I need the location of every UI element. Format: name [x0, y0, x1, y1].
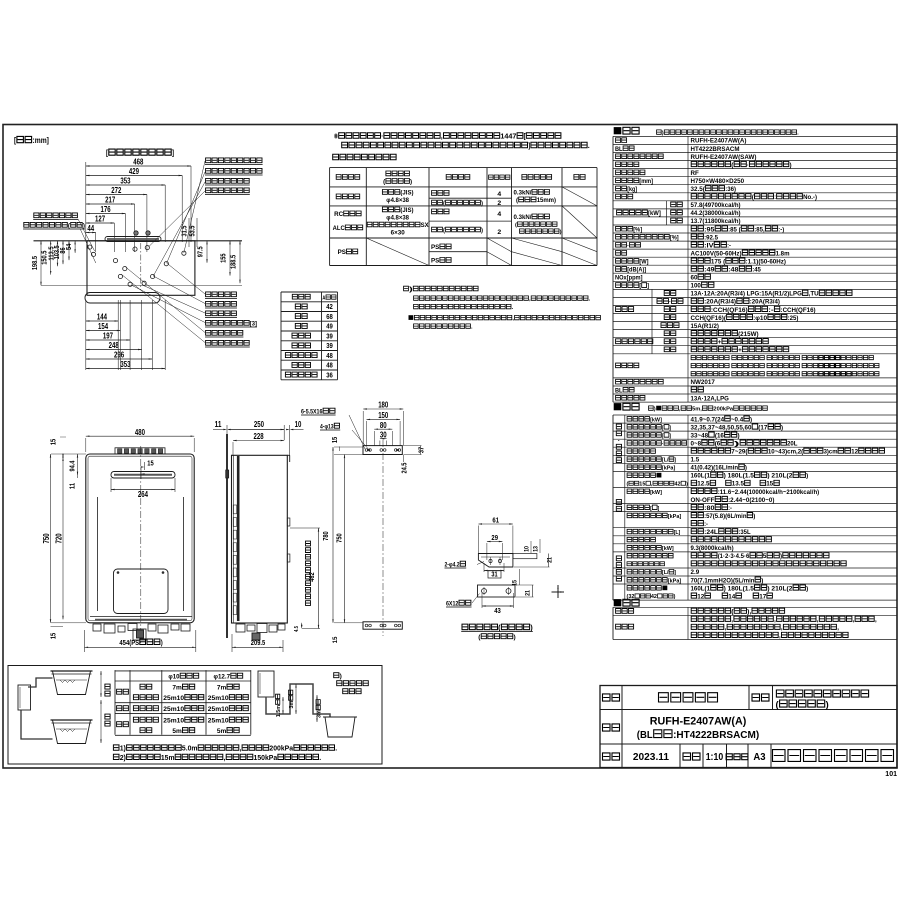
- svg-text:197: 197: [103, 332, 113, 341]
- freeze prevention group label: [616, 339, 653, 344]
- svg-text:13.5: 13.5: [732, 481, 744, 488]
- svg-text:5m,: 5m,: [692, 407, 702, 413]
- front view lower panel: [114, 569, 169, 614]
- svg-text:15: 15: [639, 482, 645, 488]
- svg-text::20A(R3/4): :20A(R3/4): [704, 299, 736, 306]
- svg-text:·: ·: [618, 438, 620, 445]
- svg-text::: :: [774, 194, 776, 201]
- bracket detail upper right flange: [513, 554, 537, 559]
- svg-text:60: 60: [691, 275, 698, 282]
- parts table grid: [613, 606, 897, 608]
- torii tub: [325, 717, 355, 737]
- svg-text:,: ,: [240, 746, 242, 753]
- svg-text:[kW]: [kW]: [662, 546, 674, 552]
- bracket detail dim 43: [482, 605, 514, 607]
- upper tub: [53, 671, 91, 695]
- svg-text:160L(1: 160L(1: [691, 473, 711, 480]
- svg-text:10~43)cm,2(: 10~43)cm,2(: [768, 449, 804, 456]
- svg-text:.: .: [335, 746, 337, 753]
- svg-text:15: 15: [147, 459, 153, 468]
- fuukan ports dark: [134, 231, 138, 235]
- svg-text:80: 80: [380, 421, 387, 430]
- top view horizontal dimension 176: [86, 213, 126, 215]
- svg-text:): ): [745, 465, 747, 472]
- side view body: [232, 455, 288, 623]
- svg-text:188.5: 188.5: [229, 255, 238, 269]
- bracket detail upper shape: [478, 554, 513, 568]
- svg-text:176: 176: [101, 205, 112, 214]
- svg-text:5m: 5m: [172, 728, 181, 735]
- top view leader lines right top: [184, 161, 205, 253]
- title block row1: [603, 694, 620, 701]
- svg-text:39: 39: [326, 331, 333, 340]
- parts table title: [623, 599, 639, 606]
- svg-text:39: 39: [326, 341, 333, 350]
- svg-text:): ): [780, 553, 782, 560]
- svg-text:RC: RC: [334, 211, 344, 218]
- svg-text:2: 2: [497, 200, 501, 207]
- svg-text:3m: 3m: [317, 710, 323, 718]
- side view dim 209.5: [231, 634, 233, 652]
- svg-text:+: +: [718, 339, 722, 346]
- svg-text:φ10: φ10: [168, 674, 179, 681]
- svg-text:41(0.42)(16L/min: 41(0.42)(16L/min: [691, 465, 739, 472]
- piping diagram box: [8, 666, 382, 765]
- svg-text:94.4: 94.4: [68, 461, 77, 472]
- svg-text:): ): [686, 482, 688, 488]
- svg-text:[L/: [L/: [662, 458, 669, 464]
- svg-text:HT4222BRSACM: HT4222BRSACM: [691, 146, 740, 153]
- svg-text:[: [: [14, 136, 16, 145]
- svg-text:NOx[ppm]: NOx[ppm]: [615, 275, 643, 282]
- svg-text:1447: 1447: [500, 132, 516, 141]
- front view bottom strip: [90, 616, 192, 618]
- front view louver slot: [111, 472, 175, 479]
- svg-text:68: 68: [326, 312, 333, 321]
- top view horizontal dimension 127: [86, 222, 115, 224]
- bracket detail lower shape: [478, 585, 516, 597]
- svg-text:·: ·: [669, 299, 671, 306]
- svg-text:1): 1): [120, 746, 126, 753]
- side view right tabs: [287, 518, 290, 526]
- svg-text:15: 15: [332, 636, 339, 643]
- svg-text:[dB(A)]: [dB(A)]: [627, 267, 646, 274]
- fixing table header: [336, 175, 360, 180]
- svg-text:(BL: (BL: [637, 730, 653, 741]
- svg-text:9.3(8000kcal/h): 9.3(8000kcal/h): [691, 545, 734, 552]
- svg-text:),: ),: [747, 609, 751, 616]
- svg-text::85,: :85,: [754, 226, 764, 233]
- svg-text:[3]: [3]: [250, 321, 257, 328]
- svg-text:4.5: 4.5: [294, 626, 300, 632]
- performance table grid: [613, 414, 897, 416]
- svg-text:150kPa: 150kPa: [254, 755, 278, 762]
- svg-text:13: 13: [533, 546, 540, 552]
- svg-text:,: ,: [875, 617, 877, 624]
- svg-text:25m10: 25m10: [163, 706, 184, 713]
- svg-text:(1·2·3·4.5·6: (1·2·3·4.5·6: [718, 553, 750, 560]
- fixing row wood wall: [336, 194, 360, 199]
- side view wall line: [226, 434, 228, 638]
- fixing method table: [330, 167, 597, 169]
- rear view left dims 780 750: [332, 447, 334, 623]
- svg-text::36): :36): [725, 186, 736, 193]
- svg-text:42: 42: [326, 302, 333, 311]
- connection group label: [616, 307, 634, 312]
- bracket detail dims 10 13 21: [524, 546, 531, 552]
- svg-text:32.5(: 32.5(: [691, 186, 706, 193]
- torii heater: [258, 671, 274, 697]
- svg-text:248: 248: [109, 341, 120, 350]
- bracket detail upper dim 29: [487, 541, 503, 543]
- svg-text:): ): [781, 424, 783, 431]
- top view front slot: [105, 237, 161, 242]
- svg-text:49: 49: [326, 322, 333, 331]
- left depth dims of top view: [40, 241, 42, 286]
- svg-text:): ): [481, 228, 483, 234]
- svg-text:15: 15: [766, 481, 773, 488]
- svg-text:) 180L(1.5: ) 180L(1.5: [724, 473, 755, 480]
- svg-text:36: 36: [326, 370, 333, 379]
- safety devices cell: [616, 363, 639, 368]
- svg-text:): ): [340, 673, 342, 680]
- top view horizontal dimension 468: [86, 165, 191, 167]
- svg-text:[kg]: [kg]: [627, 186, 637, 193]
- svg-text:2023.11: 2023.11: [633, 752, 670, 763]
- svg-text:): ): [560, 230, 562, 236]
- svg-text:]: ]: [669, 433, 671, 439]
- svg-text:]: ]: [647, 283, 649, 290]
- svg-text:7~29(: 7~29(: [731, 449, 748, 456]
- svg-text:]: ]: [658, 506, 660, 512]
- svg-text:21: 21: [525, 590, 532, 596]
- svg-text:,: ,: [224, 755, 226, 762]
- svg-text:2-φ4.2: 2-φ4.2: [445, 562, 460, 569]
- svg-text:3m: 3m: [289, 701, 295, 709]
- svg-text:200kPa: 200kPa: [713, 407, 733, 413]
- front view dim 480: [86, 435, 194, 437]
- svg-text:): ): [83, 223, 85, 230]
- fixing table diagonals: [562, 187, 597, 206]
- side view gasket line: [237, 456, 240, 621]
- svg-text::CCH(QF16): :CCH(QF16): [711, 307, 748, 314]
- svg-text:468: 468: [133, 158, 144, 167]
- rear view top bracket dims: [330, 437, 339, 443]
- svg-text:): ): [409, 287, 413, 293]
- svg-text:21: 21: [547, 557, 554, 563]
- pipes to tubs: [28, 678, 53, 687]
- top view bottom dims: [86, 320, 118, 322]
- svg-text:): ): [806, 585, 808, 592]
- connection port circles: [88, 245, 92, 249]
- svg-text:2: 2: [497, 229, 501, 236]
- svg-text::2.44~0(2100~0): :2.44~0(2100~0): [728, 497, 774, 504]
- svg-text:780: 780: [321, 531, 330, 540]
- svg-text::25): :25): [788, 315, 799, 322]
- svg-text:,TU: ,TU: [809, 291, 819, 298]
- svg-text:(215W): (215W): [738, 331, 759, 338]
- svg-text:42: 42: [675, 482, 681, 488]
- left labels heating connections: [34, 213, 78, 218]
- long extension line 198.5: [41, 284, 242, 286]
- svg-text:,: ,: [731, 617, 733, 624]
- svg-text:[kPa]: [kPa]: [668, 578, 681, 584]
- svg-text:12: 12: [697, 593, 704, 600]
- svg-text::1.1)(50-60Hz): :1.1)(50-60Hz): [746, 259, 786, 266]
- svg-text:1.5: 1.5: [691, 457, 700, 464]
- svg-text:[%]: [%]: [670, 234, 679, 241]
- updown dim labels: [100, 671, 102, 697]
- svg-text:70(7.1mmH2O)(5L/min: 70(7.1mmH2O)(5L/min: [691, 577, 755, 584]
- svg-text:154: 154: [98, 322, 109, 331]
- svg-text:]: ]: [528, 141, 530, 150]
- svg-text:54: 54: [64, 244, 73, 250]
- top view horizontal dimension 217: [86, 203, 135, 205]
- svg-text:]: ]: [669, 425, 671, 431]
- piping length table: [115, 670, 251, 672]
- A-dimension table: [281, 291, 338, 293]
- svg-text:1.8m: 1.8m: [776, 250, 790, 257]
- svg-text:296: 296: [114, 351, 125, 360]
- svg-text:0.3kN/: 0.3kN/: [514, 190, 532, 197]
- svg-text:PS: PS: [431, 258, 439, 265]
- svg-text:φ4.8×38: φ4.8×38: [386, 215, 409, 222]
- svg-text:(JIS): (JIS): [400, 207, 413, 214]
- front view top hooks: [115, 448, 165, 454]
- top view horizontal dimension 44: [86, 232, 96, 234]
- rear view center line: [382, 440, 384, 636]
- svg-text:200kPa: 200kPa: [269, 746, 293, 753]
- svg-text:[kPa]: [kPa]: [668, 514, 681, 520]
- svg-text:φ4.8×38: φ4.8×38: [386, 197, 409, 204]
- svg-text:4-φ13: 4-φ13: [320, 424, 334, 431]
- spec table title: [623, 127, 639, 134]
- svg-text:480: 480: [135, 428, 146, 437]
- title block row2 model: [603, 724, 620, 731]
- svg-text:): ): [654, 407, 656, 413]
- svg-text:272: 272: [111, 186, 122, 195]
- svg-text:(16: (16: [715, 432, 724, 439]
- svg-text:): ): [734, 441, 740, 448]
- svg-text:97.5: 97.5: [196, 246, 205, 257]
- svg-text:101: 101: [885, 771, 897, 778]
- svg-text:~0.4: ~0.4: [731, 416, 743, 423]
- front view body outline: [86, 454, 194, 623]
- svg-text:[L/: [L/: [662, 570, 669, 576]
- svg-text:NW2017: NW2017: [691, 379, 715, 386]
- svg-text:720: 720: [55, 533, 64, 544]
- bottom right labels: [206, 292, 237, 297]
- svg-text::IV: :IV: [704, 242, 714, 249]
- svg-text:7m: 7m: [172, 685, 181, 692]
- svg-text:13A·12A:20A(R3/4) LPG:15A(R1/2: 13A·12A:20A(R3/4) LPG:15A(R1/2)LPG: [691, 291, 802, 298]
- front view left dims: [49, 439, 58, 445]
- svg-text:15m: 15m: [161, 755, 175, 762]
- svg-text:RF: RF: [691, 170, 699, 177]
- side view dim 228: [233, 440, 284, 442]
- top view dim extension lines: [85, 162, 87, 240]
- svg-text:[: [: [639, 283, 641, 290]
- svg-text:12.5: 12.5: [697, 481, 709, 488]
- svg-text::mm]: :mm]: [33, 136, 50, 145]
- svg-text:6-5.5X16: 6-5.5X16: [301, 409, 323, 416]
- svg-text:No.-): No.-): [803, 194, 817, 201]
- svg-text:15: 15: [49, 439, 58, 445]
- spec table grid: [613, 135, 897, 137]
- svg-text:0.3kN/: 0.3kN/: [514, 214, 532, 221]
- svg-text:155: 155: [218, 254, 227, 263]
- svg-text:10: 10: [295, 420, 302, 429]
- svg-text::-: :-: [727, 242, 731, 249]
- svg-text:100: 100: [691, 283, 702, 290]
- svg-text:25m10: 25m10: [208, 706, 229, 713]
- svg-text:[%]: [%]: [633, 226, 642, 233]
- front view center line: [140, 446, 142, 643]
- svg-text:(: (: [443, 228, 445, 234]
- svg-text:144: 144: [97, 313, 108, 322]
- svg-text::35L: :35L: [738, 529, 750, 536]
- top view horizontal dimension 272: [86, 194, 147, 196]
- svg-text:6×30: 6×30: [391, 230, 406, 237]
- svg-text:RUFH-E2407AW(SAW): RUFH-E2407AW(SAW): [691, 154, 757, 161]
- side view dim 462 wall bracket pitch: [318, 528, 320, 629]
- svg-text:750: 750: [335, 533, 344, 542]
- svg-text:12: 12: [851, 449, 858, 456]
- svg-text:): ): [514, 634, 516, 641]
- side view louvers: [233, 505, 236, 514]
- svg-text:15: 15: [49, 633, 58, 639]
- svg-text:10: 10: [524, 546, 531, 552]
- rear view bottom bracket: [363, 622, 402, 629]
- svg-text:BL: BL: [615, 387, 623, 394]
- svg-text::92.5: :92.5: [704, 234, 718, 241]
- svg-text:11: 11: [68, 483, 77, 489]
- svg-text:209.5: 209.5: [251, 638, 265, 647]
- front view bottom connection stubs: [93, 624, 101, 631]
- spec table labels and values: [616, 138, 627, 143]
- orientation mark: [552, 585, 565, 598]
- svg-text:20L: 20L: [787, 441, 797, 448]
- svg-text:454(PS: 454(PS: [119, 638, 139, 647]
- svg-text:2): 2): [120, 755, 126, 762]
- svg-text:): ): [753, 513, 755, 520]
- svg-text:ON-OFF: ON-OFF: [691, 497, 715, 504]
- svg-text:SX: SX: [421, 223, 429, 229]
- svg-text:42: 42: [651, 594, 657, 600]
- svg-text:13A·12A,LPG: 13A·12A,LPG: [691, 395, 729, 402]
- svg-text:.: .: [319, 755, 321, 762]
- svg-text::80: :80: [704, 505, 715, 512]
- svg-text:(JIS): (JIS): [400, 190, 413, 197]
- svg-text:1:10: 1:10: [706, 752, 724, 763]
- svg-text:(6: (6: [715, 441, 721, 448]
- svg-text:175 (: 175 (: [711, 259, 726, 266]
- svg-text:·: ·: [381, 132, 383, 141]
- svg-text:,: ,: [779, 633, 781, 640]
- side view small dim 4.5: [301, 623, 303, 629]
- svg-text::85 (: :85 (: [728, 226, 741, 233]
- svg-text:3)cm: 3)cm: [824, 449, 838, 456]
- svg-text:RUFH-E2407AW(A): RUFH-E2407AW(A): [650, 716, 747, 728]
- svg-text::-: :-: [768, 307, 774, 314]
- svg-text:,: ,: [853, 617, 855, 624]
- right depth dims of top view: [180, 226, 189, 237]
- svg-text:): ): [410, 179, 412, 186]
- fixing method table title: [333, 154, 396, 160]
- svg-text:): ): [750, 416, 752, 423]
- svg-text::49: :49: [704, 267, 715, 274]
- svg-text:29: 29: [491, 533, 498, 542]
- torii dims: [282, 697, 284, 714]
- svg-text:217: 217: [105, 196, 115, 205]
- svg-text:353: 353: [120, 360, 131, 369]
- title block row3: [603, 753, 620, 760]
- svg-text:25m10: 25m10: [208, 695, 229, 702]
- svg-text:): ): [826, 699, 829, 710]
- top view bottom slot: [85, 293, 160, 304]
- title block frame: [600, 686, 897, 768]
- svg-text:48: 48: [326, 361, 333, 370]
- side view bottom stubs: [236, 624, 245, 632]
- svg-text:180: 180: [378, 401, 389, 410]
- svg-text:127: 127: [95, 215, 105, 224]
- svg-text:7m: 7m: [217, 685, 226, 692]
- svg-text:(: (: [443, 201, 445, 207]
- svg-text:,: ,: [725, 625, 727, 632]
- front view side grooves: [97, 497, 99, 611]
- svg-text:ALC: ALC: [333, 225, 346, 232]
- svg-text:[W]: [W]: [639, 259, 648, 266]
- svg-text:CCH(QF16)(: CCH(QF16)(: [691, 315, 727, 322]
- svg-text:24.5: 24.5: [400, 463, 409, 474]
- svg-text:61: 61: [492, 516, 499, 525]
- svg-text:228: 228: [254, 432, 265, 441]
- svg-text:[kW]: [kW]: [650, 490, 662, 496]
- svg-text:353: 353: [120, 177, 131, 186]
- svg-text:4: 4: [497, 191, 501, 198]
- top view unit outline: [87, 241, 195, 295]
- parts rows: [616, 609, 634, 614]
- sheet outer border: [3, 125, 897, 769]
- svg-text:PS: PS: [431, 244, 439, 251]
- svg-text:44.2(38000kcal/h): 44.2(38000kcal/h): [691, 210, 741, 217]
- svg-text:※: ※: [334, 132, 338, 141]
- svg-text:37: 37: [417, 447, 426, 453]
- svg-text:,: ,: [837, 625, 839, 632]
- label pump drain plugs: [206, 158, 262, 163]
- rear view top dims: [363, 408, 403, 410]
- svg-text:15: 15: [330, 437, 339, 443]
- svg-text:) 210L(2: ) 210L(2: [767, 585, 792, 592]
- svg-text:150: 150: [378, 411, 389, 420]
- svg-text:5: 5: [763, 553, 767, 560]
- svg-text:13.7(11800kcal/h): 13.7(11800kcal/h): [691, 218, 741, 225]
- svg-text:30: 30: [380, 430, 387, 439]
- svg-text:25m10: 25m10: [163, 695, 184, 702]
- svg-text:14: 14: [728, 593, 735, 600]
- wall line behind unit: [34, 240, 243, 242]
- svg-text:φ12.7: φ12.7: [214, 674, 231, 681]
- svg-text:AC100V(50-60Hz): AC100V(50-60Hz): [691, 250, 742, 257]
- svg-text:,: ,: [774, 617, 776, 624]
- svg-text:1.5m: 1.5m: [276, 705, 282, 717]
- svg-text:429: 429: [129, 167, 140, 176]
- performance table title: [623, 403, 639, 410]
- bracket detail lower dims 15 21: [512, 580, 519, 586]
- svg-text::-): :-): [778, 226, 784, 233]
- svg-text:0~8: 0~8: [691, 441, 702, 448]
- svg-text::20A(R3/4): :20A(R3/4): [750, 299, 780, 306]
